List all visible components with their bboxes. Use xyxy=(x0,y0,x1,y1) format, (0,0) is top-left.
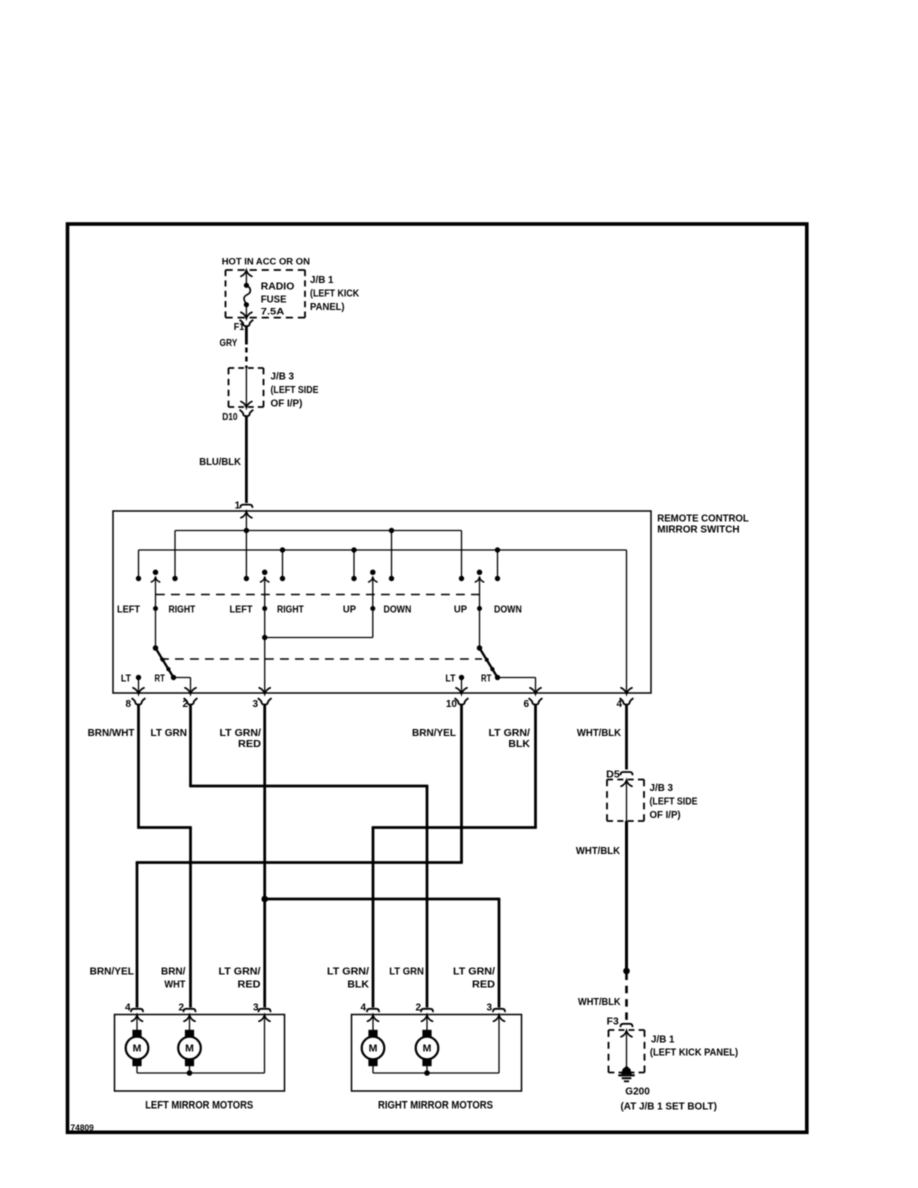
svg-text:(AT J/B 1 SET BOLT): (AT J/B 1 SET BOLT) xyxy=(621,1101,717,1112)
connector right motor pin 4 xyxy=(360,1003,379,1014)
contact LT (S1) xyxy=(136,675,141,680)
wire LT GRN/RED branch to right motor xyxy=(265,898,499,1008)
svg-text:BLU/BLK: BLU/BLK xyxy=(199,457,242,468)
D10 label xyxy=(222,412,238,423)
G200 label xyxy=(625,1087,650,1098)
fuse value label RADIO FUSE 7.5A xyxy=(261,281,295,316)
LT GRN/BLK label at right motor pin 4 xyxy=(327,967,370,991)
wire GRY dashed segment xyxy=(245,348,247,369)
arrow into right motor box at pin 3 xyxy=(494,1015,505,1021)
wire row A end to S1 right contact xyxy=(174,531,176,579)
wire row B end to pin 4 xyxy=(621,550,632,694)
wire row B to S4 right contact xyxy=(497,550,499,579)
wire S4 arm to selector pivot xyxy=(477,609,483,651)
WHT/BLK wire label (middle) xyxy=(576,846,621,857)
label RT (S1) xyxy=(155,673,165,684)
LT GRN/BLK wire label xyxy=(489,728,531,750)
LT GRN/RED label at left motor pin 3 xyxy=(219,967,261,991)
svg-text:7.5A: 7.5A xyxy=(261,307,285,317)
label RIGHT (section 1) xyxy=(169,604,196,615)
J/B 1 lower label xyxy=(650,1035,738,1059)
svg-text:UP: UP xyxy=(343,604,356,615)
svg-text:WHT/BLK: WHT/BLK xyxy=(578,997,621,1008)
svg-text:8: 8 xyxy=(125,699,131,710)
svg-text:RIGHT: RIGHT xyxy=(277,604,304,615)
label DOWN (section 4) xyxy=(494,604,522,615)
svg-text:GRY: GRY xyxy=(220,338,238,349)
arrow into switch pin 1 xyxy=(241,512,252,531)
svg-text:(LEFT SIDE: (LEFT SIDE xyxy=(650,797,698,808)
junction block J/B 1 dashed box (lower) xyxy=(609,1030,645,1073)
wire S3 arm down and left to S2 arm xyxy=(265,609,373,638)
svg-text:M: M xyxy=(423,1043,432,1055)
junction block J/B 1 dashed box xyxy=(226,270,306,318)
wire row B to S2 right contact xyxy=(282,550,284,579)
contact S4 UP xyxy=(459,576,464,581)
contact S2 LEFT xyxy=(244,576,249,581)
svg-text:F1: F1 xyxy=(234,322,245,333)
svg-text:RED: RED xyxy=(238,739,261,750)
wire fuse to J/B 1 bottom xyxy=(241,305,252,319)
node WHT/BLK junction xyxy=(623,968,630,975)
connector D5 xyxy=(620,772,632,775)
junction block J/B 3 dashed box (right) xyxy=(607,780,644,822)
label LEFT (section 1) xyxy=(117,604,140,615)
wire GRY solid segment xyxy=(245,326,248,345)
svg-text:(LEFT SIDE: (LEFT SIDE xyxy=(271,385,319,396)
svg-text:J/B 3: J/B 3 xyxy=(650,783,674,794)
svg-text:2: 2 xyxy=(415,1003,421,1014)
svg-text:2: 2 xyxy=(182,699,188,710)
left motor common bus xyxy=(137,1015,265,1073)
svg-text:WHT/BLK: WHT/BLK xyxy=(576,846,621,857)
switch arm tip at x=264.7 xyxy=(261,570,269,611)
right mirror motors box xyxy=(352,1015,522,1092)
svg-text:PANEL): PANEL) xyxy=(310,302,345,313)
connector D10 xyxy=(240,410,254,417)
svg-text:3: 3 xyxy=(252,699,258,710)
motor L2 (left mirror left-right) xyxy=(178,1030,201,1066)
svg-text:RIGHT: RIGHT xyxy=(169,604,196,615)
wire row A to S3 right contact xyxy=(391,531,393,579)
svg-text:OF I/P): OF I/P) xyxy=(650,810,681,821)
remote control mirror switch box xyxy=(113,511,651,693)
bus row B wire xyxy=(139,549,627,551)
BLU/BLK wire label xyxy=(199,457,242,468)
selector arm S4 (diagonal) xyxy=(480,648,498,678)
LT GRN label at right motor pin 2 xyxy=(389,967,424,978)
wire left motor pin 2 to motor L2 xyxy=(189,1015,191,1030)
svg-text:J/B 1: J/B 1 xyxy=(651,1035,675,1046)
svg-text:10: 10 xyxy=(446,699,458,710)
wire through J/B 3 xyxy=(241,368,252,408)
svg-text:BRN/WHT: BRN/WHT xyxy=(88,728,135,739)
node row B junction x497 xyxy=(495,547,500,552)
BRN/WHT wire label xyxy=(88,728,135,739)
mechanical link dashed line upper xyxy=(156,594,480,596)
svg-text:REMOTE CONTROL: REMOTE CONTROL xyxy=(657,514,749,525)
connector left motor pin 4 xyxy=(125,1003,143,1014)
label RIGHT (section 2) xyxy=(277,604,304,615)
node S2/S3 arm junction xyxy=(262,635,267,640)
right mirror motors caption xyxy=(378,1100,493,1112)
contact LT (S4) xyxy=(459,675,464,680)
svg-text:BLK: BLK xyxy=(347,980,369,991)
bus row A wire xyxy=(175,530,462,532)
power label HOT IN ACC OR ON xyxy=(222,256,310,267)
connector right motor pin 2 xyxy=(415,1003,433,1014)
WHT/BLK wire label (upper) xyxy=(577,728,622,739)
wire BRN/YEL from pin 10 xyxy=(136,705,463,1008)
node left motor bus junction xyxy=(187,1070,193,1076)
connector F1 xyxy=(240,320,254,327)
BRN/YEL label at left motor pin 4 xyxy=(90,966,134,977)
connector F3 xyxy=(620,1024,632,1027)
svg-text:OF I/P): OF I/P) xyxy=(271,398,303,409)
svg-text:WHT: WHT xyxy=(164,980,185,991)
svg-text:M: M xyxy=(133,1043,142,1055)
wire WHT/BLK from pin 4 xyxy=(625,705,628,770)
contact S4 DOWN xyxy=(495,576,500,581)
svg-text:3: 3 xyxy=(486,1003,492,1014)
svg-text:G200: G200 xyxy=(625,1087,650,1098)
arrow into right motor box at pin 2 xyxy=(422,1015,433,1021)
contact S2 RIGHT xyxy=(280,576,285,581)
wire RT contact to pin 2 xyxy=(174,678,197,694)
contact RT (S4) xyxy=(495,675,500,680)
svg-text:(LEFT KICK PANEL): (LEFT KICK PANEL) xyxy=(650,1048,738,1059)
connector pin 1 of mirror switch xyxy=(240,505,252,508)
connector left motor pin 3 xyxy=(253,1003,271,1014)
svg-text:LEFT: LEFT xyxy=(230,604,253,615)
svg-text:(LEFT KICK: (LEFT KICK xyxy=(310,289,360,300)
wire BLU/BLK xyxy=(245,416,248,503)
page border frame xyxy=(68,224,807,1132)
wire WHT/BLK dashed segment xyxy=(625,973,628,1022)
LT GRN wire label xyxy=(151,728,188,739)
svg-text:LT GRN/: LT GRN/ xyxy=(220,728,262,739)
LT GRN/RED label at right motor pin 3 xyxy=(453,967,495,991)
svg-text:RADIO: RADIO xyxy=(261,281,295,292)
GRY wire label xyxy=(220,338,238,349)
svg-text:DOWN: DOWN xyxy=(494,604,522,615)
svg-text:FUSE: FUSE xyxy=(261,295,287,306)
motor R2 (right mirror left-right) xyxy=(416,1030,439,1066)
svg-text:LT GRN: LT GRN xyxy=(151,728,188,739)
wire left motor pin 4 to motor L1 xyxy=(136,1015,138,1030)
wire through lower J/B 1 xyxy=(621,1031,632,1068)
svg-text:2: 2 xyxy=(178,1003,184,1014)
wire LT GRN/BLK from pin 6 xyxy=(372,705,537,1008)
svg-text:BRN/YEL: BRN/YEL xyxy=(412,728,456,739)
svg-text:UP: UP xyxy=(454,604,467,615)
wire right motor pin 2 to motor R2 xyxy=(426,1015,428,1030)
wire LT contact to pin 10 xyxy=(456,678,467,694)
arrow into left motor box at pin 4 xyxy=(132,1015,143,1021)
wire row B end to S1 left contact xyxy=(138,550,140,579)
svg-text:BRN/: BRN/ xyxy=(161,967,186,978)
node right motor bus junction xyxy=(424,1070,430,1076)
switch arm tip at x=155.5 xyxy=(151,570,159,611)
svg-text:RED: RED xyxy=(238,980,261,991)
mechanical link dashed line lower xyxy=(160,658,482,660)
wire LT GRN/RED from pin 3 xyxy=(263,705,266,1008)
svg-text:LT: LT xyxy=(445,673,455,684)
svg-text:RT: RT xyxy=(481,673,491,684)
svg-text:BRN/YEL: BRN/YEL xyxy=(90,966,134,977)
right motor common bus xyxy=(373,1015,499,1073)
connector pin 4 of mirror switch xyxy=(616,698,633,710)
label LT (S4) xyxy=(445,673,455,684)
G200 location label xyxy=(621,1101,717,1112)
left mirror motors box xyxy=(115,1015,285,1092)
F1 label xyxy=(234,322,245,333)
label UP (section 4) xyxy=(454,604,467,615)
BRN/YEL wire label xyxy=(412,728,456,739)
node row A / pin1 junction xyxy=(244,528,249,533)
svg-text:WHT/BLK: WHT/BLK xyxy=(577,728,622,739)
svg-text:HOT IN ACC OR ON: HOT IN ACC OR ON xyxy=(222,256,310,267)
wire RT contact to pin 6 xyxy=(498,678,542,694)
switch arm tip at x=372.8 xyxy=(369,570,377,611)
svg-text:4: 4 xyxy=(616,699,622,710)
motor L1 (left mirror up-down) xyxy=(126,1030,149,1066)
svg-text:MIRROR SWITCH: MIRROR SWITCH xyxy=(657,525,739,536)
label UP (section 3) xyxy=(343,604,356,615)
contact S1 LEFT xyxy=(136,576,141,581)
svg-text:4: 4 xyxy=(125,1003,131,1014)
ground G200 symbol xyxy=(618,1067,634,1082)
contact S3 UP xyxy=(351,576,356,581)
D5 label xyxy=(606,769,620,780)
svg-text:3: 3 xyxy=(253,1003,259,1014)
node row A junction at x391 xyxy=(389,528,394,533)
svg-text:LT: LT xyxy=(121,673,131,684)
J/B 1 label (LEFT KICK PANEL) xyxy=(310,275,360,313)
junction block J/B 3 dashed box (upper) xyxy=(229,368,264,407)
svg-text:RED: RED xyxy=(472,980,495,991)
pin 1 label xyxy=(235,501,241,512)
svg-text:6: 6 xyxy=(523,699,529,710)
J/B 3 upper label xyxy=(271,371,319,409)
connector pin 8 of mirror switch xyxy=(125,698,145,710)
svg-text:74809: 74809 xyxy=(71,1124,95,1133)
LT GRN/RED wire label xyxy=(220,728,262,750)
fuse F1 RADIO FUSE 7.5A xyxy=(244,283,251,308)
svg-text:LT GRN/: LT GRN/ xyxy=(219,967,261,978)
arrow into left motor box at pin 2 xyxy=(184,1015,195,1021)
wire pin1 to S2 left contact xyxy=(245,531,247,579)
connector pin 3 of mirror switch xyxy=(252,698,271,710)
wire WHT/BLK solid below J/B 3 xyxy=(625,821,628,971)
wire LT contact to pin 8 xyxy=(133,678,144,694)
wire LT GRN from pin 2 xyxy=(189,705,428,1008)
arrow into left motor box at pin 3 xyxy=(259,1015,270,1021)
left mirror motors caption xyxy=(145,1100,253,1112)
switch arm tip at x=479.5 xyxy=(475,570,483,611)
wire right motor pin 4 to motor R1 xyxy=(372,1015,374,1030)
selector arm S1 (diagonal) xyxy=(156,648,174,678)
svg-text:LT GRN/: LT GRN/ xyxy=(327,967,369,978)
wire row A end to S4 left contact xyxy=(461,531,463,579)
contact S1 RIGHT xyxy=(172,576,177,581)
WHT/BLK wire label (lower) xyxy=(578,997,621,1008)
diagram number 74809 xyxy=(71,1124,95,1133)
label RT (S4) xyxy=(481,673,491,684)
F3 label xyxy=(607,1017,620,1028)
motor R1 (right mirror up-down) xyxy=(362,1030,385,1066)
wire BRN/WHT from pin 8 xyxy=(137,705,192,1008)
switch name label xyxy=(657,514,749,536)
connector pin 10 of mirror switch xyxy=(446,698,469,710)
svg-text:LEFT MIRROR MOTORS: LEFT MIRROR MOTORS xyxy=(145,1100,253,1112)
J/B 3 right label xyxy=(650,783,698,821)
contact RT (S1) xyxy=(171,675,176,680)
svg-text:M: M xyxy=(369,1043,378,1055)
wire row B to S3 left contact xyxy=(353,550,355,579)
label LEFT (section 2) xyxy=(230,604,253,615)
connector pin 2 of mirror switch xyxy=(182,698,197,710)
svg-text:J/B 1: J/B 1 xyxy=(310,275,334,286)
svg-text:F3: F3 xyxy=(607,1017,620,1028)
svg-text:BLK: BLK xyxy=(508,739,530,750)
label LT (S1) xyxy=(121,673,131,684)
node row B junction x354 xyxy=(351,547,356,552)
svg-text:LT GRN: LT GRN xyxy=(389,967,424,978)
arrow into right motor box at pin 4 xyxy=(368,1015,379,1021)
svg-text:LEFT: LEFT xyxy=(117,604,140,615)
svg-text:LT GRN/: LT GRN/ xyxy=(453,967,495,978)
svg-text:RT: RT xyxy=(155,673,165,684)
arrow into J/B 1 top xyxy=(241,270,252,285)
svg-text:LT GRN/: LT GRN/ xyxy=(489,728,531,739)
svg-text:D10: D10 xyxy=(222,412,238,423)
BRN/WHT label at left motor pin 2 xyxy=(161,967,186,991)
svg-text:M: M xyxy=(185,1043,194,1055)
svg-text:RIGHT MIRROR MOTORS: RIGHT MIRROR MOTORS xyxy=(378,1100,493,1112)
node LT GRN/RED branch junction xyxy=(261,896,268,903)
label DOWN (section 3) xyxy=(384,604,412,615)
node row B junction x282 xyxy=(280,547,285,552)
wire S2 arm to pin 3 xyxy=(259,609,270,694)
wire S1 arm to selector pivot xyxy=(153,609,159,651)
svg-text:4: 4 xyxy=(360,1003,366,1014)
svg-text:DOWN: DOWN xyxy=(384,604,412,615)
connector pin 6 of mirror switch xyxy=(523,698,542,710)
wire through right J/B 3 xyxy=(621,780,632,821)
contact S3 DOWN xyxy=(389,576,394,581)
svg-text:J/B 3: J/B 3 xyxy=(271,371,295,382)
connector right motor pin 3 xyxy=(486,1003,505,1014)
connector left motor pin 2 xyxy=(178,1003,195,1014)
